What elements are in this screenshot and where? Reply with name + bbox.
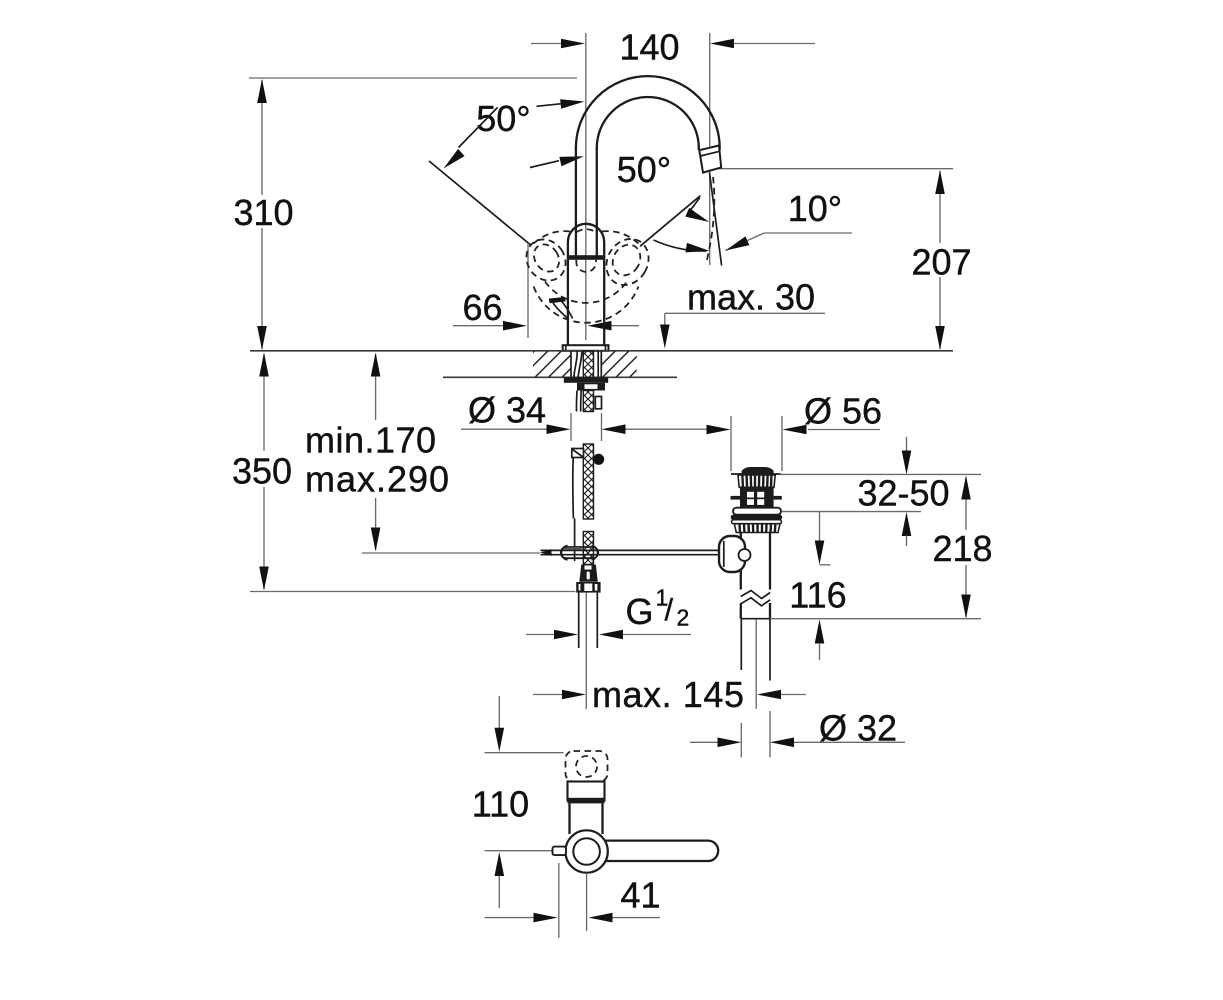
pop-up waste cap [731, 467, 781, 474]
svg-text:max. 145: max. 145 [592, 674, 744, 715]
retaining clip dot [593, 454, 604, 465]
svg-text:10°: 10° [788, 188, 842, 229]
rod ball joint [719, 536, 751, 572]
svg-text:G: G [626, 591, 654, 632]
top view centerline [586, 873, 588, 931]
rod link [561, 546, 598, 560]
tube break symbol [740, 590, 772, 606]
dimension 110 [472, 696, 564, 908]
pop-up stem block [731, 488, 782, 508]
lever swiveled position left dashed [519, 232, 574, 288]
svg-text:Ø 56: Ø 56 [804, 391, 882, 432]
dimension 50 degree swivel label [476, 97, 585, 168]
svg-text:/: / [665, 592, 674, 627]
dimension 116 [789, 512, 846, 660]
svg-text:140: 140 [619, 27, 679, 68]
spout inner arc [597, 97, 699, 150]
lever handle solid [549, 297, 573, 319]
mounting nut [577, 383, 605, 391]
dimension 66 [453, 243, 639, 338]
svg-text:2: 2 [677, 605, 690, 631]
svg-text:41: 41 [620, 875, 660, 916]
top view spout dashed [566, 751, 608, 782]
svg-text:207: 207 [911, 242, 971, 283]
threaded shank segment 4 [583, 532, 593, 565]
extension line spout top [249, 77, 577, 79]
dimension max. 145 [533, 674, 806, 715]
top view body collar [568, 782, 605, 804]
hidden pipe socket dashed [576, 229, 596, 272]
pop-up knurled band upper [738, 475, 775, 487]
pop-up rod [540, 549, 719, 556]
G half inch nipple [579, 593, 598, 709]
dimension G 1/2 [526, 585, 691, 640]
lever swiveled position right dashed [598, 231, 657, 293]
supply nipple nut [576, 582, 600, 593]
svg-text:116: 116 [789, 575, 846, 616]
dimension 310 [233, 79, 293, 350]
svg-text:max. 30: max. 30 [687, 277, 815, 318]
pull rod upper curve [574, 351, 582, 377]
dimension diameter 34 [461, 390, 731, 442]
spout column [576, 148, 597, 256]
lever sweep arcs dashed [534, 231, 639, 323]
dimension 350 [232, 353, 576, 592]
svg-text:Ø 34: Ø 34 [468, 390, 546, 431]
swivel range diagonal left [429, 108, 531, 246]
drain body tube [741, 533, 770, 619]
dimension 207 [718, 169, 972, 350]
centerline faucet axis [585, 33, 587, 340]
drain tailpipe [741, 619, 770, 758]
drain bottom line [741, 618, 981, 620]
dimension min.170 max.290 [305, 353, 540, 554]
threaded shank segment 3 [583, 444, 593, 519]
svg-text:50°: 50° [476, 98, 530, 139]
washer under deck [564, 377, 608, 383]
svg-text:218: 218 [932, 528, 992, 569]
svg-text:Ø 32: Ø 32 [819, 708, 897, 749]
dimension 50 degree spout angle label [617, 149, 711, 256]
svg-text:350: 350 [232, 451, 292, 492]
deck hatching [508, 351, 656, 378]
svg-text:50°: 50° [617, 149, 671, 190]
check valve flag [572, 449, 584, 519]
pop-up knurled band lower [734, 524, 780, 533]
base flange [563, 345, 609, 351]
pull rod below nut [576, 391, 581, 412]
pull rod lower [574, 519, 576, 561]
dimension 10 degree stream angle [724, 188, 852, 255]
aerator nozzle [699, 146, 721, 173]
svg-text:110: 110 [472, 784, 529, 825]
top view pivot circles [565, 830, 607, 872]
dimension 41 [485, 863, 661, 938]
water stream [707, 173, 722, 266]
extension line spout outlet [709, 33, 711, 265]
top view lever tab [553, 847, 567, 856]
deck hole edges [571, 351, 601, 377]
dimension 32-50 [781, 437, 982, 546]
pop-up flange disks [731, 508, 783, 524]
dimension 218 [932, 476, 992, 619]
top view body sides [570, 803, 603, 834]
threaded shank segment 2 [583, 391, 593, 412]
dimension diameter 32 [690, 708, 905, 749]
clamp screw block [595, 397, 601, 409]
svg-text:min.170: min.170 [305, 420, 436, 461]
svg-text:310: 310 [233, 192, 293, 233]
dimension 140 [531, 27, 815, 68]
body cartridge housing [568, 224, 604, 346]
threaded shank in hole [583, 351, 593, 377]
swivel range diagonal right [640, 196, 700, 247]
top view lever arm [605, 841, 719, 861]
dimension diameter 56 [731, 391, 882, 472]
svg-text:max.290: max.290 [305, 459, 449, 500]
shank end cone [579, 565, 598, 582]
spout outer arc [576, 76, 720, 150]
svg-text:32-50: 32-50 [857, 473, 949, 514]
svg-text:66: 66 [462, 287, 502, 328]
countertop deck [250, 351, 953, 378]
body joint band [569, 255, 603, 260]
dimension max. 30 [660, 277, 825, 349]
